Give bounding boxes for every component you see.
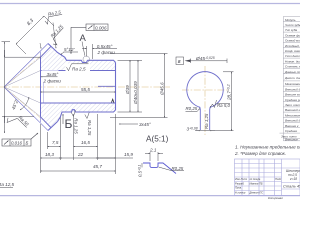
right face bbox=[115, 62, 117, 110]
svg-text:Ra 5,0: Ra 5,0 bbox=[217, 103, 230, 108]
hatched lower section bbox=[41, 103, 116, 128]
svg-text:Угол делит: Угол делит bbox=[285, 54, 300, 58]
Ra 1.25 rotated flag 1 bbox=[71, 110, 78, 134]
detail circle around groove bbox=[83, 56, 90, 63]
Ra 50 flag lower cone bbox=[5, 110, 30, 135]
svg-text:Ø40±0,039: Ø40±0,039 bbox=[133, 81, 138, 105]
svg-text:7,5: 7,5 bbox=[52, 140, 59, 145]
svg-text:А: А bbox=[80, 33, 87, 44]
svg-text:0,5х45°: 0,5х45° bbox=[97, 44, 113, 49]
svg-text:Иванов ПБ: Иванов ПБ bbox=[250, 182, 263, 186]
root line top (thick) bbox=[41, 46, 52, 57]
svg-text:Внешние: Внешние bbox=[285, 137, 298, 141]
tooth end face bottom bbox=[40, 117, 42, 122]
svg-text:R0,25: R0,25 bbox=[172, 166, 184, 171]
svg-text:Модуль: Модуль bbox=[285, 18, 296, 22]
svg-text:Ø39: Ø39 bbox=[125, 85, 130, 95]
svg-text:0,006: 0,006 bbox=[95, 26, 107, 31]
R0.25 label circle view bbox=[186, 109, 200, 112]
svg-text:Звол. конт: Звол. конт bbox=[285, 103, 300, 107]
svg-text:А(5:1): А(5:1) bbox=[146, 135, 169, 144]
dia 39 bbox=[129, 60, 131, 112]
root line bottom (thick) bbox=[41, 117, 52, 128]
dim 15.9 bbox=[98, 157, 134, 159]
svg-text:Внешний шаг: Внешний шаг bbox=[285, 108, 300, 112]
cone fan lines from apex bbox=[4, 57, 41, 117]
svg-text:Осевая форма: Осевая форма bbox=[285, 33, 300, 37]
tooth end face top bbox=[40, 52, 42, 57]
svg-text:Коэф. смещен: Коэф. смещен bbox=[285, 49, 300, 53]
runout tolerance frame top bbox=[71, 24, 108, 54]
chamfer 3x45 callout left bbox=[42, 70, 59, 82]
bore chamfer edge at left face bbox=[43, 71, 45, 104]
svg-text:2 фаски: 2 фаски bbox=[43, 78, 62, 83]
svg-text:3х45°: 3х45° bbox=[139, 122, 151, 127]
svg-text:Внешне к: Внешне к bbox=[285, 124, 299, 128]
svg-text:Б: Б bbox=[26, 141, 29, 146]
pitch cone dash lines (orange) bbox=[4, 51, 47, 124]
svg-text:Осевой модуль: Осевой модуль bbox=[285, 39, 300, 43]
keyway slot bbox=[199, 107, 211, 130]
svg-text:18,3: 18,3 bbox=[45, 152, 54, 157]
detail surface with groove bbox=[143, 163, 176, 174]
svg-text:Среднее: Среднее bbox=[285, 129, 297, 133]
svg-text:55,5: 55,5 bbox=[81, 87, 90, 92]
left face vertical bbox=[40, 57, 42, 117]
cone surface thin top bbox=[4, 44, 48, 88]
svg-text:45,7: 45,7 bbox=[93, 164, 102, 169]
bore top line bbox=[41, 70, 116, 72]
hatched upper section bbox=[41, 46, 116, 70]
left vertical dim bbox=[2, 42, 41, 134]
svg-text:Ra 2,5: Ra 2,5 bbox=[72, 66, 86, 71]
svg-text:Б: Б bbox=[65, 117, 73, 131]
svg-text:z=18: z=18 bbox=[289, 177, 297, 181]
svg-text:22: 22 bbox=[77, 152, 84, 157]
svg-text:Делит. диам: Делит. диам bbox=[284, 76, 300, 80]
svg-text:Исходный конт: Исходный конт bbox=[285, 44, 300, 48]
circle bbox=[187, 72, 223, 108]
svg-text:в: в bbox=[178, 59, 181, 65]
5deg12 taper label bbox=[61, 52, 78, 55]
Ra 1.25 flag back cone bbox=[47, 23, 70, 46]
angle 45 arc dim bbox=[20, 97, 29, 110]
28.7 vertical dim bbox=[231, 72, 233, 131]
svg-text:Среднее расст: Среднее расст bbox=[285, 98, 300, 102]
frame top border bbox=[0, 3, 300, 5]
svg-text:№ докум.: № докум. bbox=[250, 177, 262, 181]
circle centerlines bbox=[182, 89, 228, 91]
svg-text:1. Неуказанные предельные откл: 1. Неуказанные предельные отклонения bbox=[235, 144, 300, 149]
bottom dims extension lines bbox=[41, 114, 116, 174]
dim 7.5 bbox=[48, 146, 61, 148]
part outline top: back cone edge + taper + step bbox=[48, 44, 82, 61]
svg-text:16,5: 16,5 bbox=[81, 140, 90, 145]
svg-text:Число зубьев: Число зубьев bbox=[285, 23, 300, 27]
svg-text:Тип зуба: Тип зуба bbox=[285, 28, 297, 32]
svg-text:Н.контр: Н.контр bbox=[235, 191, 246, 195]
bore bottom line bbox=[41, 102, 116, 104]
Ra 2.5 bore flag bbox=[66, 63, 91, 71]
svg-text:Номин. диам: Номин. диам bbox=[285, 59, 300, 63]
right dia dims extension lines bbox=[110, 54, 168, 118]
svg-text:Изм Лист: Изм Лист bbox=[235, 177, 248, 181]
top face to right bbox=[87, 60, 115, 62]
chamfer 3x45 right bbox=[119, 123, 138, 125]
dim 18.3 bbox=[41, 157, 61, 159]
svg-text:Копировал: Копировал bbox=[268, 196, 283, 200]
svg-text:0,016: 0,016 bbox=[11, 141, 23, 146]
slot bottom exts bbox=[195, 72, 234, 131]
Ra 5.0 flag circle view bbox=[210, 100, 230, 108]
dim 16.5 bbox=[74, 146, 98, 148]
svg-text:5°12': 5°12' bbox=[64, 47, 75, 52]
svg-text:Мекосевое: Мекосевое bbox=[285, 113, 300, 117]
dim 22 bbox=[61, 157, 98, 159]
svg-text:15,9: 15,9 bbox=[124, 152, 133, 157]
B box label bbox=[176, 57, 184, 65]
runout tolerance frame bottom-left bbox=[2, 133, 38, 146]
svg-text:Внешний д: Внешний д bbox=[285, 119, 300, 123]
svg-text:Демкин ПС: Демкин ПС bbox=[249, 191, 264, 195]
svg-text:3х45°: 3х45° bbox=[47, 72, 59, 77]
svg-text:2,1: 2,1 bbox=[149, 148, 157, 153]
svg-text:Ra 12,5: Ra 12,5 bbox=[0, 182, 15, 187]
Ra 2.5 flag top cone bbox=[44, 9, 64, 24]
chamfer 0.5x45 callout bbox=[82, 44, 117, 59]
svg-text:Сталь 45 ГО: Сталь 45 ГО bbox=[283, 184, 300, 189]
svg-text:Степень точн: Степень точн bbox=[285, 65, 300, 69]
svg-text:Внешне конус: Внешне конус bbox=[285, 93, 300, 97]
svg-text:R0,25: R0,25 bbox=[186, 106, 198, 111]
bore roughness tick bbox=[112, 99, 114, 103]
svg-text:Межосевое р: Межосевое р bbox=[285, 82, 300, 86]
svg-text:Разраб.: Разраб. bbox=[235, 182, 245, 186]
svg-text:2. *Размер для справок.: 2. *Размер для справок. bbox=[234, 151, 286, 156]
svg-text:Ra 1,25: Ra 1,25 bbox=[204, 113, 209, 129]
cone surface thin bottom bbox=[4, 87, 48, 131]
back cone edge bottom bbox=[48, 122, 58, 131]
groove notch A bbox=[82, 60, 88, 62]
frame bottom border bbox=[0, 195, 300, 197]
svg-text:Ø45,6: Ø45,6 bbox=[160, 82, 165, 96]
dia 40 bbox=[137, 60, 139, 112]
svg-text:Подп: Подп bbox=[275, 177, 282, 181]
dim 45.7 total bbox=[41, 170, 116, 172]
dim 2.1 detail bbox=[145, 152, 163, 161]
centerline axis bbox=[0, 86, 170, 88]
R0.25 detail label bbox=[159, 167, 185, 171]
svg-text:Внешний диам: Внешний диам bbox=[285, 87, 300, 91]
svg-text:Пров.: Пров. bbox=[235, 186, 242, 190]
dim 8.3 diagonal bbox=[16, 16, 54, 54]
svg-text:2 фаски: 2 фаски bbox=[97, 50, 116, 55]
keyway line in bore bbox=[98, 85, 116, 87]
svg-text:Ra 1,25: Ra 1,25 bbox=[87, 120, 92, 136]
bottom face with notch bbox=[58, 110, 116, 122]
svg-text:Ra 1,25: Ra 1,25 bbox=[73, 118, 78, 134]
detail left vertical dim 0.5 bbox=[141, 163, 143, 167]
Ra 1.25 rotated flag 2 bbox=[85, 113, 92, 136]
svg-text:Данные по в: Данные по в bbox=[284, 70, 300, 74]
dim 55.5 bbox=[41, 91, 116, 93]
dia45 dim over circle bbox=[191, 60, 228, 62]
dia 45.6 bbox=[164, 54, 166, 118]
